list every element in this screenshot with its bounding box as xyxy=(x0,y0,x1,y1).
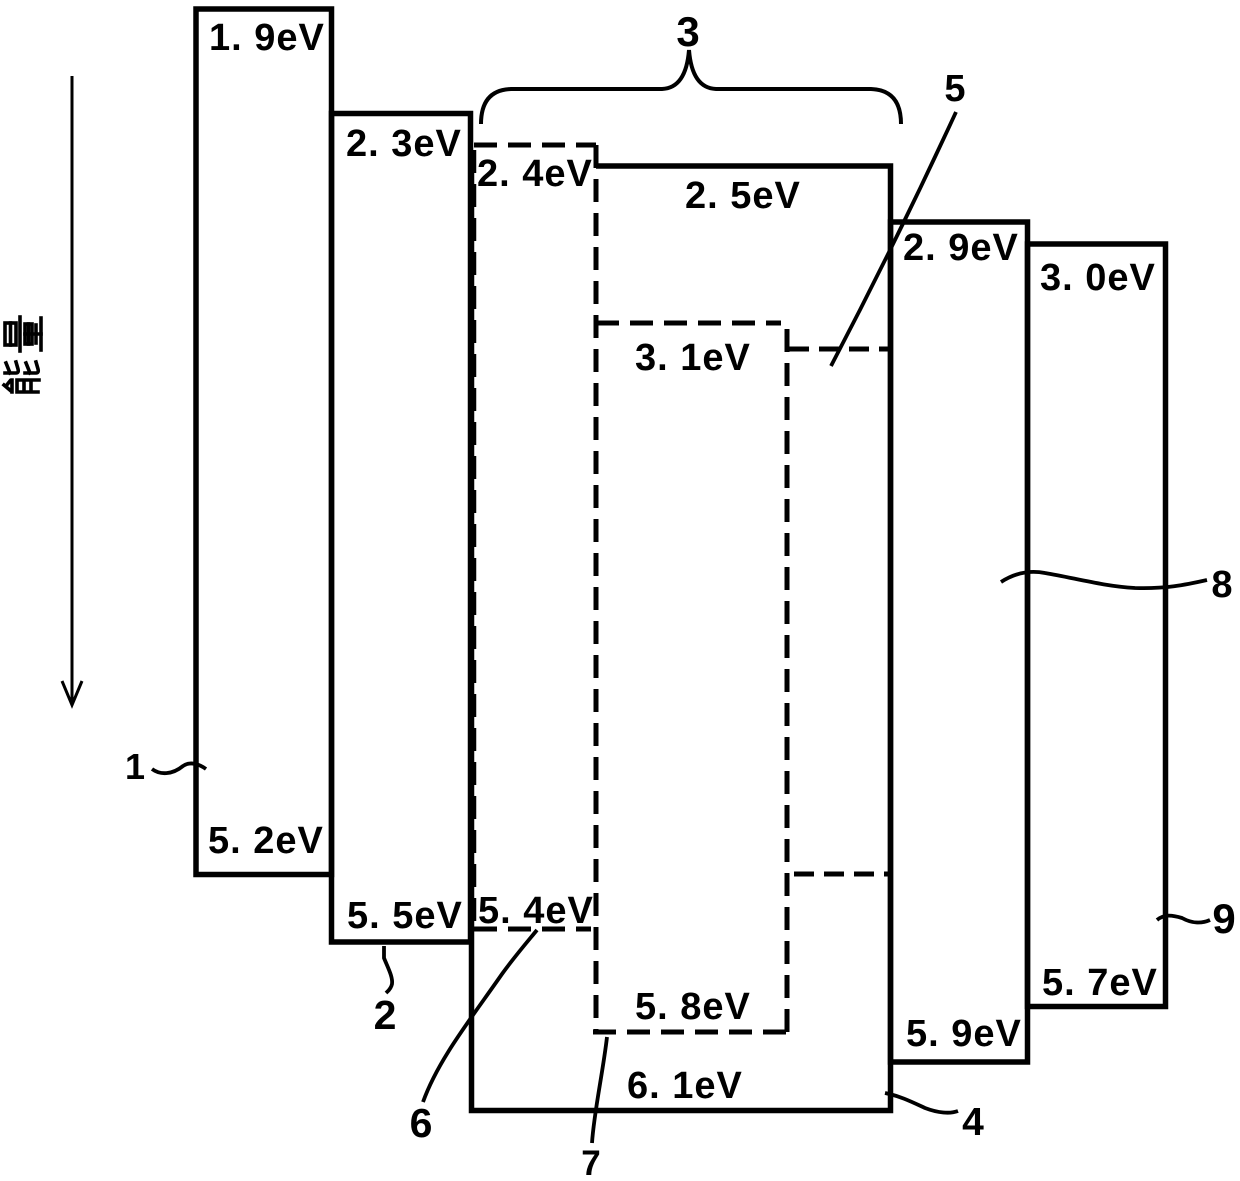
dashed region 7 right edge xyxy=(785,329,790,1032)
layer 9 rectangle xyxy=(1028,244,1166,1007)
svg-text:3. 0eV: 3. 0eV xyxy=(1040,257,1156,299)
svg-text:5. 2eV: 5. 2eV xyxy=(208,820,324,862)
svg-text:2: 2 xyxy=(374,992,397,1038)
svg-text:2. 5eV: 2. 5eV xyxy=(685,175,801,217)
svg-text:8: 8 xyxy=(1211,564,1232,606)
svg-text:5. 8eV: 5. 8eV xyxy=(635,986,751,1028)
leader 4 xyxy=(885,1093,958,1113)
svg-text:2. 3eV: 2. 3eV xyxy=(346,123,462,165)
glyph 量 xyxy=(5,317,41,351)
dashed region 6 left edge (peeks out beside solid edge) xyxy=(472,150,477,929)
leader 9 xyxy=(1157,916,1210,923)
dashed level line lower right of region 7 xyxy=(794,872,890,877)
energy axis arrow xyxy=(62,76,82,705)
dashed region 6 top edge xyxy=(474,143,596,148)
leader 7 xyxy=(592,1037,607,1143)
svg-text:5. 4eV: 5. 4eV xyxy=(478,890,594,932)
svg-text:5. 5eV: 5. 5eV xyxy=(347,895,463,937)
leader 2 xyxy=(384,946,392,993)
layer 4 host rectangle xyxy=(472,166,891,1111)
leader 8 xyxy=(1001,572,1207,588)
dashed region 7 bottom edge xyxy=(593,1030,787,1035)
dashed region 6 bottom edge xyxy=(474,927,591,932)
dashed level line upper right of region 7 xyxy=(789,347,890,352)
svg-text:6: 6 xyxy=(410,1100,433,1146)
leader 1 xyxy=(152,763,206,773)
layer 8 rectangle xyxy=(891,222,1028,1062)
leader 5 xyxy=(831,112,956,366)
svg-text:3. 1eV: 3. 1eV xyxy=(635,337,751,379)
layer 1 rectangle xyxy=(196,9,332,875)
brace 3 xyxy=(481,50,901,124)
svg-text:1. 9eV: 1. 9eV xyxy=(209,17,325,59)
svg-text:5. 7eV: 5. 7eV xyxy=(1042,962,1158,1004)
svg-text:9: 9 xyxy=(1212,895,1235,942)
svg-text:7: 7 xyxy=(581,1144,600,1181)
svg-text:1: 1 xyxy=(125,746,145,787)
svg-text:2. 9eV: 2. 9eV xyxy=(903,227,1019,269)
dashed vertical shared edge of 6 and 7 xyxy=(594,145,599,1031)
layer 2 rectangle xyxy=(332,114,471,943)
svg-text:6. 1eV: 6. 1eV xyxy=(627,1065,743,1107)
leader 6 xyxy=(423,930,537,1102)
svg-text:3: 3 xyxy=(676,8,699,55)
dashed region 7 top edge xyxy=(596,321,781,326)
energy axis label 能量 (drawn glyphs, rotated 90° CCW) xyxy=(4,317,41,392)
svg-text:5: 5 xyxy=(944,68,965,110)
svg-text:2. 4eV: 2. 4eV xyxy=(477,153,593,195)
svg-text:5. 9eV: 5. 9eV xyxy=(906,1013,1022,1055)
glyph 能 xyxy=(4,362,39,392)
svg-text:4: 4 xyxy=(962,1101,984,1144)
